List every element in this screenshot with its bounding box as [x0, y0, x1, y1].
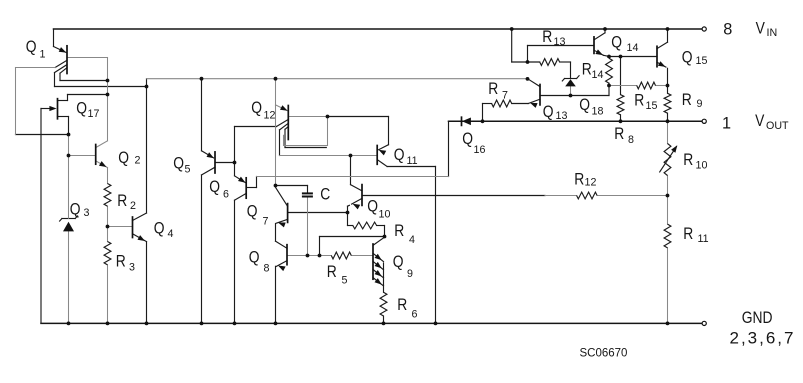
- svg-text:SC06670: SC06670: [580, 348, 628, 360]
- svg-text:Q: Q: [173, 154, 184, 172]
- svg-text:R: R: [682, 91, 692, 109]
- svg-text:12: 12: [264, 110, 276, 122]
- svg-text:Q: Q: [209, 178, 220, 196]
- svg-text:13: 13: [554, 36, 566, 48]
- svg-text:9: 9: [697, 98, 703, 110]
- svg-text:11: 11: [698, 233, 709, 245]
- svg-text:Q: Q: [682, 48, 693, 66]
- svg-text:R: R: [327, 263, 337, 281]
- svg-text:7: 7: [502, 90, 508, 102]
- svg-text:R: R: [397, 296, 407, 314]
- svg-text:1: 1: [722, 115, 731, 133]
- svg-text:7: 7: [263, 216, 269, 228]
- svg-text:Q: Q: [154, 219, 165, 237]
- svg-text:IN: IN: [767, 27, 778, 39]
- svg-text:R: R: [574, 170, 584, 188]
- svg-text:1: 1: [40, 49, 46, 61]
- svg-text:15: 15: [696, 55, 708, 67]
- svg-text:OUT: OUT: [766, 120, 789, 132]
- svg-text:5: 5: [185, 164, 191, 176]
- svg-text:2: 2: [130, 200, 136, 212]
- svg-text:R: R: [683, 225, 693, 243]
- svg-text:R: R: [542, 28, 552, 46]
- svg-text:17: 17: [88, 108, 100, 120]
- svg-text:Q: Q: [26, 38, 37, 56]
- svg-text:Q: Q: [543, 103, 554, 121]
- svg-text:15: 15: [646, 100, 658, 112]
- svg-text:R: R: [614, 125, 624, 143]
- svg-text:V: V: [756, 19, 766, 37]
- svg-text:5: 5: [342, 275, 348, 287]
- svg-text:R: R: [683, 151, 693, 169]
- svg-text:3: 3: [84, 207, 90, 219]
- svg-text:9: 9: [407, 268, 413, 280]
- svg-text:Q: Q: [367, 197, 378, 215]
- svg-text:Q: Q: [247, 202, 258, 220]
- svg-text:Q: Q: [462, 130, 473, 148]
- svg-text:Q: Q: [579, 96, 590, 114]
- svg-text:R: R: [634, 91, 644, 109]
- svg-text:R: R: [394, 222, 404, 240]
- svg-text:V: V: [755, 112, 765, 130]
- svg-text:Q: Q: [393, 253, 404, 271]
- svg-text:4: 4: [168, 228, 174, 240]
- svg-text:12: 12: [585, 177, 597, 189]
- svg-text:11: 11: [407, 155, 418, 167]
- svg-text:18: 18: [592, 106, 604, 118]
- svg-text:R: R: [116, 252, 126, 270]
- svg-text:14: 14: [592, 69, 604, 81]
- svg-text:R: R: [117, 192, 127, 210]
- svg-text:Q: Q: [394, 146, 405, 164]
- svg-text:Q: Q: [118, 149, 129, 167]
- svg-text:3: 3: [129, 262, 135, 274]
- svg-text:Q: Q: [251, 99, 262, 117]
- svg-text:C: C: [320, 185, 330, 203]
- svg-text:2: 2: [135, 155, 141, 167]
- svg-text:10: 10: [379, 209, 391, 221]
- svg-text:Q: Q: [70, 200, 81, 218]
- svg-text:10: 10: [696, 160, 708, 172]
- svg-text:8: 8: [723, 21, 732, 39]
- svg-text:8: 8: [264, 263, 270, 275]
- svg-text:Q: Q: [76, 99, 87, 117]
- svg-text:14: 14: [627, 42, 639, 54]
- svg-text:4: 4: [409, 234, 415, 246]
- svg-text:Q: Q: [249, 248, 260, 266]
- svg-text:R: R: [488, 80, 498, 98]
- svg-text:6: 6: [223, 189, 229, 201]
- svg-text:R: R: [582, 60, 592, 78]
- svg-text:16: 16: [474, 144, 486, 156]
- svg-text:GND: GND: [742, 309, 773, 327]
- svg-text:13: 13: [556, 110, 568, 122]
- svg-text:6: 6: [412, 309, 418, 321]
- svg-text:Q: Q: [611, 33, 622, 51]
- svg-text:8: 8: [628, 134, 634, 146]
